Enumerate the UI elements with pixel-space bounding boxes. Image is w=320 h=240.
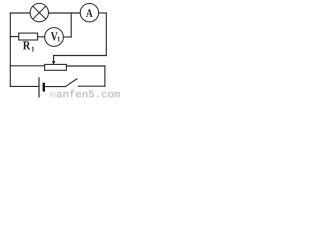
wire bottom-left to battery xyxy=(10,85,39,87)
wire top-left horizontal xyxy=(10,12,30,14)
voltmeter V1 circle xyxy=(45,28,64,47)
rheostat slider arrow stem xyxy=(53,56,55,62)
wire lamp to ammeter xyxy=(49,12,81,14)
voltmeter label V xyxy=(51,32,58,40)
wire resistor R1 to voltmeter V1 xyxy=(38,36,45,38)
resistor label subscript 1 xyxy=(32,47,34,52)
wire voltmeter branch vertical to top xyxy=(70,13,72,37)
rheostat body xyxy=(45,64,67,70)
wire battery to switch xyxy=(45,86,66,88)
lamp L circle xyxy=(30,3,48,21)
wire left to rheostat xyxy=(10,65,44,67)
wire switch fixed contact horizontal xyxy=(78,85,105,87)
wire rheostat right xyxy=(66,65,105,67)
watermark manfen5.com first m xyxy=(50,92,56,98)
wire right vertical lower xyxy=(104,66,106,86)
voltmeter label subscript 1 xyxy=(58,37,60,42)
wire left vertical xyxy=(9,13,11,86)
resistor label R xyxy=(23,41,30,49)
ammeter A circle xyxy=(80,4,98,22)
ammeter label A xyxy=(86,9,93,17)
switch S lever xyxy=(65,79,77,87)
wire right vertical upper xyxy=(105,13,107,56)
battery positive plate (long) xyxy=(38,77,40,97)
watermark manfen5.com rest xyxy=(57,89,120,97)
wire left to resistor R1 xyxy=(10,36,18,38)
wire ammeter to top-right corner xyxy=(99,12,107,14)
wire voltmeter V1 right xyxy=(63,36,71,38)
resistor R1 body xyxy=(19,33,38,40)
battery negative plate (short thick) xyxy=(43,83,45,92)
lamp L cross xyxy=(33,6,46,19)
wire rheostat slider horizontal xyxy=(54,55,107,57)
rheostat slider arrow head xyxy=(52,61,56,64)
